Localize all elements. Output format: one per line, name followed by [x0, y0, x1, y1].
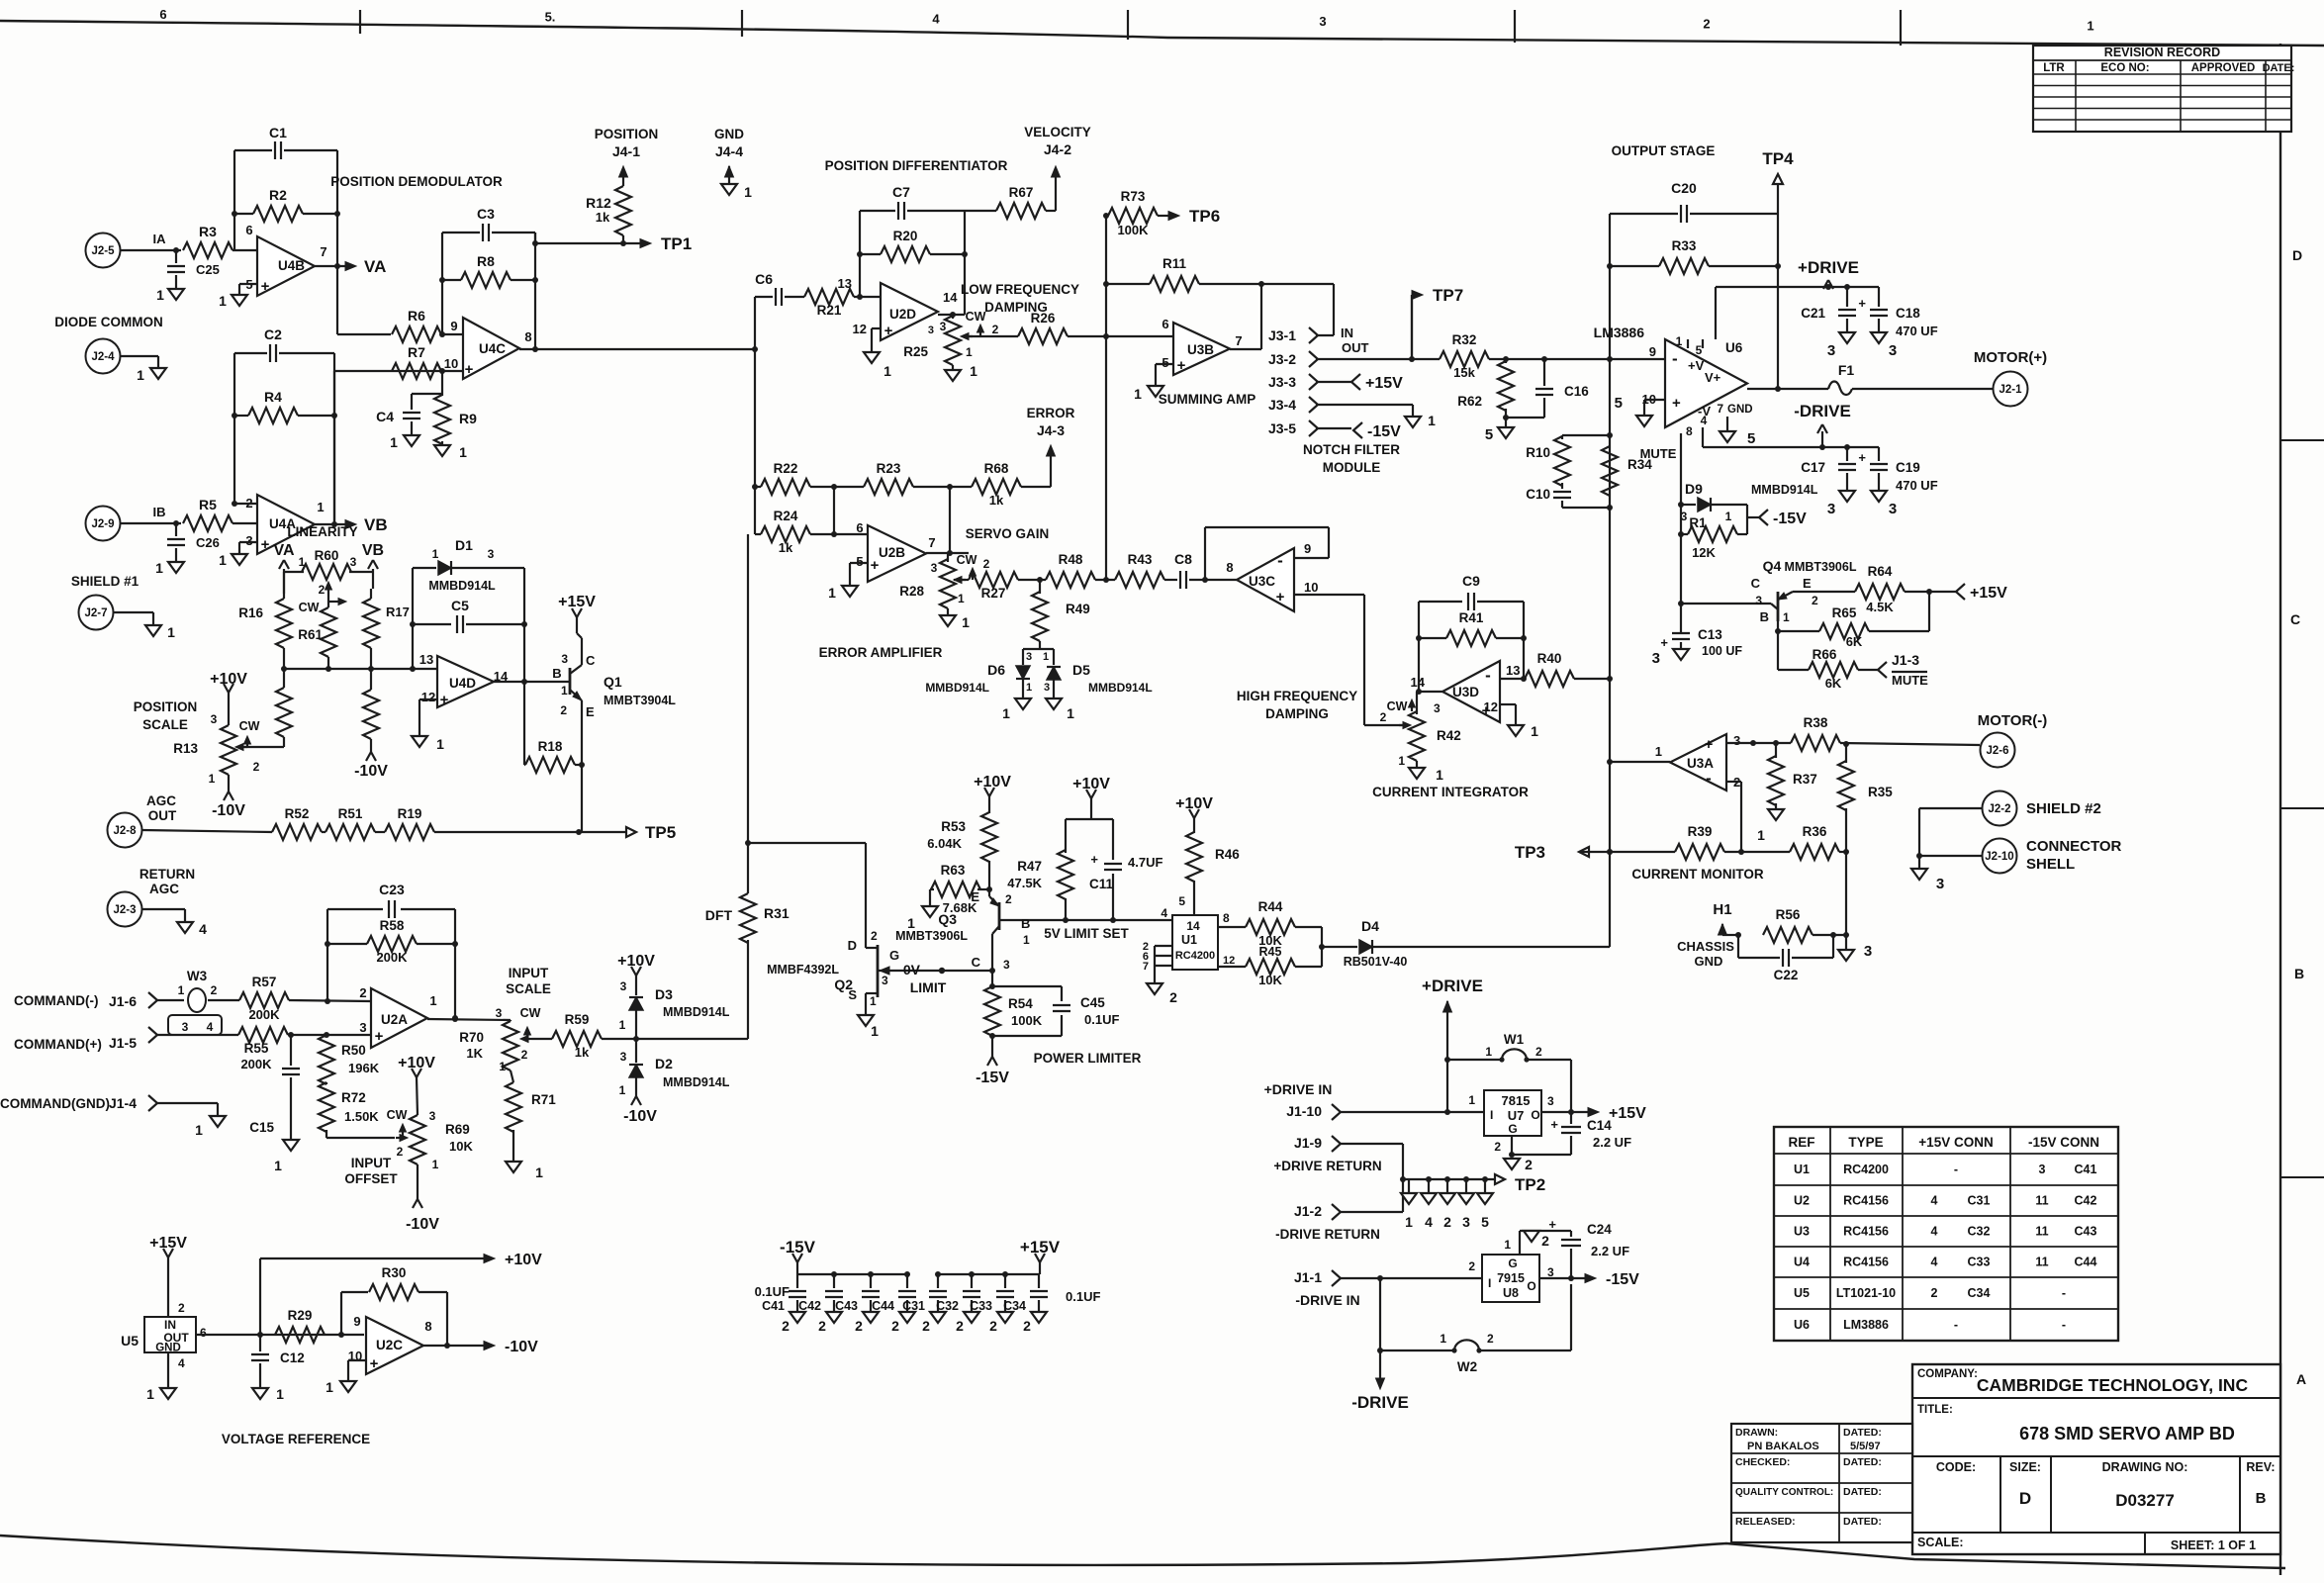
svg-text:U3C: U3C — [1249, 574, 1275, 589]
svg-text:R37: R37 — [1793, 772, 1817, 787]
svg-text:R25: R25 — [903, 344, 928, 359]
svg-text:7: 7 — [320, 244, 326, 259]
svg-text:B: B — [1021, 916, 1030, 931]
svg-text:1: 1 — [209, 772, 216, 786]
svg-text:+10V: +10V — [617, 953, 655, 970]
svg-text:CW: CW — [387, 1108, 408, 1122]
svg-text:6K: 6K — [1846, 634, 1863, 649]
svg-text:-DRIVE RETURN: -DRIVE RETURN — [1275, 1227, 1380, 1242]
svg-text:C45: C45 — [1080, 995, 1105, 1010]
svg-text:5/5/97: 5/5/97 — [1850, 1441, 1881, 1452]
svg-text:C43: C43 — [835, 1299, 858, 1313]
svg-text:+: + — [1276, 589, 1285, 605]
svg-text:U3: U3 — [1794, 1225, 1810, 1239]
svg-text:LOW FREQUENCY: LOW FREQUENCY — [961, 282, 1079, 297]
svg-text:R13: R13 — [173, 741, 198, 756]
svg-text:J2-6: J2-6 — [1986, 745, 2008, 757]
svg-text:R62: R62 — [1457, 394, 1482, 409]
svg-text:1: 1 — [1023, 933, 1030, 947]
svg-text:INPUT: INPUT — [351, 1156, 392, 1170]
svg-text:11: 11 — [2035, 1256, 2048, 1269]
svg-text:1: 1 — [1504, 1238, 1511, 1252]
svg-text:U3B: U3B — [1187, 342, 1214, 357]
svg-text:C20: C20 — [1671, 180, 1697, 196]
svg-text:REF: REF — [1789, 1135, 1815, 1150]
svg-text:C44: C44 — [2075, 1256, 2097, 1269]
svg-text:3: 3 — [928, 325, 934, 336]
svg-text:R54: R54 — [1008, 996, 1033, 1011]
svg-text:+: + — [1548, 1217, 1556, 1232]
svg-text:13: 13 — [419, 652, 433, 667]
svg-text:2: 2 — [1443, 1214, 1451, 1230]
svg-text:R49: R49 — [1066, 602, 1090, 616]
svg-text:2: 2 — [359, 985, 366, 1000]
svg-text:C2: C2 — [264, 326, 282, 342]
svg-text:ECO NO:: ECO NO: — [2100, 62, 2149, 74]
svg-text:R32: R32 — [1452, 332, 1477, 347]
svg-text:SIZE:: SIZE: — [2009, 1460, 2041, 1474]
svg-text:DFT: DFT — [705, 907, 733, 923]
svg-text:U4B: U4B — [278, 258, 305, 273]
svg-text:REVISION RECORD: REVISION RECORD — [2104, 46, 2220, 59]
svg-text:POSITION: POSITION — [595, 127, 659, 141]
svg-text:IB: IB — [153, 505, 166, 519]
svg-text:RB501V-40: RB501V-40 — [1344, 955, 1408, 969]
svg-text:SHEET: 1 OF 1: SHEET: 1 OF 1 — [2171, 1538, 2256, 1552]
svg-text:1: 1 — [429, 993, 436, 1008]
svg-text:100K: 100K — [1117, 223, 1149, 237]
svg-text:J1-3: J1-3 — [1892, 652, 1919, 668]
svg-text:C21: C21 — [1801, 306, 1825, 321]
svg-text:J4-3: J4-3 — [1037, 422, 1065, 438]
svg-text:1: 1 — [1134, 386, 1142, 402]
svg-text:LT1021-10: LT1021-10 — [1836, 1286, 1896, 1300]
svg-text:12: 12 — [421, 690, 435, 704]
svg-text:MMBD914L: MMBD914L — [663, 1075, 730, 1089]
svg-text:R51: R51 — [338, 806, 363, 821]
svg-text:COMMAND(GND): COMMAND(GND) — [0, 1096, 110, 1111]
svg-text:1: 1 — [1725, 510, 1732, 523]
svg-text:C14: C14 — [1587, 1118, 1612, 1133]
svg-text:0.1UF: 0.1UF — [1066, 1289, 1100, 1304]
svg-text:+: + — [370, 1355, 379, 1372]
svg-text:R21: R21 — [817, 303, 842, 318]
svg-text:COMMAND(+): COMMAND(+) — [14, 1037, 102, 1052]
svg-text:R23: R23 — [877, 461, 901, 476]
svg-text:R10: R10 — [1526, 445, 1550, 460]
svg-text:C32: C32 — [1968, 1225, 1991, 1239]
svg-text:4: 4 — [1931, 1194, 1938, 1208]
svg-text:R57: R57 — [252, 975, 277, 989]
svg-text:O: O — [1531, 1108, 1539, 1122]
svg-text:POSITION DEMODULATOR: POSITION DEMODULATOR — [330, 174, 503, 189]
svg-text:R2: R2 — [269, 187, 287, 203]
svg-text:100K: 100K — [1011, 1013, 1043, 1028]
svg-text:R63: R63 — [941, 863, 966, 878]
svg-text:R66: R66 — [1813, 647, 1837, 662]
svg-text:MMBD914L: MMBD914L — [1751, 483, 1818, 497]
svg-text:G: G — [1508, 1122, 1517, 1136]
svg-text:B: B — [2294, 966, 2304, 981]
svg-text:C33: C33 — [1968, 1256, 1991, 1269]
svg-text:3: 3 — [1827, 501, 1835, 517]
svg-text:CHECKED:: CHECKED: — [1735, 1456, 1790, 1468]
svg-text:+DRIVE RETURN: +DRIVE RETURN — [1273, 1159, 1381, 1173]
svg-text:DATED:: DATED: — [1843, 1427, 1882, 1439]
svg-text:E: E — [1803, 576, 1812, 591]
svg-text:7: 7 — [1235, 333, 1242, 348]
svg-text:CW: CW — [299, 601, 320, 614]
svg-text:R33: R33 — [1672, 238, 1697, 253]
svg-text:C9: C9 — [1462, 573, 1480, 589]
svg-text:C12: C12 — [280, 1350, 305, 1365]
svg-text:VOLTAGE REFERENCE: VOLTAGE REFERENCE — [222, 1432, 370, 1446]
svg-text:1: 1 — [1067, 705, 1074, 721]
svg-text:10: 10 — [1304, 580, 1318, 595]
svg-text:D: D — [2019, 1489, 2031, 1508]
svg-text:11: 11 — [2035, 1225, 2048, 1239]
svg-text:C31: C31 — [1968, 1194, 1991, 1208]
svg-text:TITLE:: TITLE: — [1917, 1404, 1953, 1416]
svg-text:+: + — [465, 361, 474, 378]
svg-text:J2-9: J2-9 — [91, 518, 114, 530]
svg-text:1: 1 — [1531, 723, 1538, 739]
svg-text:R11: R11 — [1162, 256, 1187, 271]
svg-text:C: C — [2290, 611, 2300, 627]
svg-text:1: 1 — [146, 1386, 154, 1402]
svg-text:+: + — [261, 278, 270, 295]
svg-text:CW: CW — [966, 310, 986, 324]
svg-text:VELOCITY: VELOCITY — [1024, 125, 1091, 140]
svg-text:C: C — [972, 955, 981, 970]
svg-text:RC4156: RC4156 — [1843, 1225, 1889, 1239]
svg-text:U2: U2 — [1794, 1194, 1810, 1208]
svg-text:3: 3 — [1936, 876, 1944, 892]
svg-text:10K: 10K — [449, 1139, 473, 1154]
svg-text:2: 2 — [1931, 1286, 1938, 1300]
svg-text:C4: C4 — [376, 409, 394, 424]
svg-text:U2D: U2D — [889, 307, 916, 322]
svg-text:MMBD914L: MMBD914L — [663, 1005, 730, 1019]
svg-text:+: + — [1660, 635, 1668, 650]
svg-text:D4: D4 — [1361, 918, 1379, 934]
svg-text:1: 1 — [276, 1386, 284, 1402]
svg-text:J1-4: J1-4 — [109, 1095, 137, 1111]
svg-text:J2-8: J2-8 — [113, 825, 137, 837]
svg-text:3: 3 — [1652, 650, 1660, 667]
svg-text:4.5K: 4.5K — [1866, 600, 1894, 614]
svg-text:D5: D5 — [1072, 662, 1090, 678]
svg-text:R45: R45 — [1259, 945, 1282, 959]
svg-text:678 SMD SERVO AMP BD: 678 SMD SERVO AMP BD — [2019, 1424, 2235, 1443]
svg-text:4: 4 — [1931, 1256, 1938, 1269]
svg-text:U1: U1 — [1794, 1163, 1810, 1176]
svg-text:TP3: TP3 — [1515, 843, 1545, 862]
svg-text:12: 12 — [853, 322, 867, 336]
svg-text:J2-2: J2-2 — [1988, 803, 2010, 815]
svg-text:R28: R28 — [899, 584, 924, 599]
svg-text:1: 1 — [178, 983, 185, 997]
svg-text:C16: C16 — [1564, 384, 1589, 399]
svg-text:HIGH FREQUENCY: HIGH FREQUENCY — [1237, 689, 1357, 703]
svg-text:10K: 10K — [1258, 973, 1282, 987]
svg-text:VB: VB — [362, 542, 384, 559]
svg-text:D: D — [848, 938, 857, 953]
svg-text:2: 2 — [855, 1318, 863, 1334]
svg-text:3: 3 — [350, 555, 357, 569]
svg-text:5: 5 — [1615, 395, 1623, 412]
svg-text:R72: R72 — [341, 1090, 366, 1105]
svg-text:+15V: +15V — [1970, 585, 2007, 602]
svg-text:J2-4: J2-4 — [91, 351, 115, 363]
svg-text:R7: R7 — [408, 344, 425, 360]
svg-text:B: B — [1760, 609, 1769, 624]
svg-text:C7: C7 — [892, 184, 910, 200]
svg-text:DIODE COMMON: DIODE COMMON — [54, 315, 163, 329]
svg-text:D6: D6 — [987, 662, 1005, 678]
svg-text:CURRENT INTEGRATOR: CURRENT INTEGRATOR — [1372, 785, 1529, 799]
svg-text:DATE:: DATE: — [2263, 62, 2295, 74]
svg-text:R9: R9 — [459, 411, 477, 426]
svg-text:9: 9 — [1304, 541, 1311, 556]
svg-text:8: 8 — [1223, 911, 1230, 925]
svg-text:1k: 1k — [596, 210, 610, 225]
svg-text:-10V: -10V — [354, 763, 388, 780]
svg-text:J2-7: J2-7 — [84, 607, 107, 619]
svg-text:4: 4 — [1701, 414, 1708, 427]
svg-text:-: - — [2062, 1286, 2066, 1300]
svg-text:QUALITY CONTROL:: QUALITY CONTROL: — [1735, 1487, 1833, 1498]
svg-text:-: - — [2062, 1318, 2066, 1332]
svg-text:J4-4: J4-4 — [715, 143, 743, 159]
svg-text:+15V: +15V — [1609, 1105, 1646, 1122]
svg-text:D1: D1 — [455, 537, 473, 553]
svg-text:1: 1 — [155, 560, 163, 576]
svg-text:1: 1 — [2087, 19, 2093, 34]
svg-text:4: 4 — [199, 921, 207, 937]
svg-text:-15V: -15V — [1773, 511, 1807, 527]
svg-text:R38: R38 — [1804, 715, 1828, 730]
svg-text:R18: R18 — [538, 739, 563, 754]
svg-text:J1-6: J1-6 — [109, 993, 137, 1009]
svg-text:F1: F1 — [1838, 362, 1855, 378]
svg-text:4.7UF: 4.7UF — [1128, 855, 1162, 870]
svg-text:TP7: TP7 — [1433, 286, 1463, 305]
svg-text:+15V CONN: +15V CONN — [1918, 1135, 1993, 1150]
svg-text:D: D — [2292, 247, 2302, 263]
svg-text:C41: C41 — [762, 1299, 785, 1313]
svg-text:R4: R4 — [264, 389, 282, 405]
svg-text:+10V: +10V — [505, 1252, 542, 1268]
svg-text:R56: R56 — [1776, 907, 1801, 922]
svg-text:6: 6 — [200, 1326, 207, 1340]
svg-text:R47: R47 — [1017, 859, 1042, 874]
svg-text:CW: CW — [957, 553, 977, 567]
svg-text:6: 6 — [245, 223, 252, 237]
svg-text:-10V: -10V — [212, 802, 245, 819]
svg-text:+DRIVE: +DRIVE — [1422, 977, 1483, 995]
svg-text:SCALE: SCALE — [142, 717, 188, 732]
svg-text:3: 3 — [1547, 1094, 1554, 1108]
svg-text:+: + — [1858, 296, 1866, 311]
svg-text:R61: R61 — [298, 627, 323, 642]
svg-text:13: 13 — [1506, 663, 1520, 678]
svg-text:CW: CW — [1387, 699, 1408, 713]
svg-text:1: 1 — [219, 293, 227, 309]
svg-text:3: 3 — [1755, 594, 1762, 607]
svg-text:CONNECTOR: CONNECTOR — [2026, 838, 2122, 855]
svg-text:2: 2 — [1525, 1157, 1533, 1172]
svg-text:1: 1 — [436, 736, 444, 752]
svg-text:R60: R60 — [315, 548, 339, 563]
svg-text:1: 1 — [137, 367, 144, 383]
svg-text:1: 1 — [1026, 682, 1032, 694]
svg-text:+V: +V — [1688, 358, 1705, 373]
svg-text:D2: D2 — [655, 1056, 673, 1071]
svg-text:SHELL: SHELL — [2026, 856, 2075, 873]
svg-text:9: 9 — [353, 1314, 360, 1329]
svg-text:MODULE: MODULE — [1323, 460, 1381, 475]
svg-text:IA: IA — [153, 232, 167, 246]
svg-text:+: + — [1177, 357, 1186, 374]
svg-text:0V: 0V — [903, 962, 921, 978]
svg-text:C19: C19 — [1896, 460, 1920, 475]
svg-text:V+: V+ — [1705, 370, 1721, 385]
svg-text:R68: R68 — [984, 461, 1009, 476]
svg-text:C42: C42 — [798, 1299, 821, 1313]
svg-text:J3-4: J3-4 — [1268, 397, 1296, 413]
svg-text:U7: U7 — [1508, 1108, 1525, 1123]
svg-text:+: + — [1090, 852, 1098, 867]
svg-text:-: - — [1485, 666, 1491, 685]
svg-text:1: 1 — [1757, 827, 1765, 843]
svg-text:1: 1 — [1468, 1093, 1475, 1107]
svg-text:RETURN: RETURN — [139, 867, 195, 882]
svg-text:9: 9 — [450, 319, 457, 333]
svg-text:4: 4 — [1425, 1214, 1433, 1230]
svg-text:MMBD914L: MMBD914L — [925, 681, 989, 695]
svg-text:1: 1 — [870, 994, 877, 1008]
svg-text:5: 5 — [1178, 894, 1185, 908]
svg-text:POWER LIMITER: POWER LIMITER — [1034, 1051, 1142, 1066]
svg-text:MMBT3906L: MMBT3906L — [895, 929, 968, 943]
svg-text:+: + — [1705, 736, 1714, 753]
svg-text:LM3886: LM3886 — [1594, 325, 1645, 340]
svg-text:DRAWING NO:: DRAWING NO: — [2102, 1460, 2188, 1474]
svg-text:2: 2 — [818, 1318, 826, 1334]
svg-text:-15V: -15V — [1367, 423, 1401, 440]
svg-text:C15: C15 — [249, 1120, 274, 1135]
svg-text:J2-1: J2-1 — [1999, 384, 2022, 396]
svg-text:3: 3 — [182, 1020, 189, 1034]
svg-text:R3: R3 — [199, 224, 217, 239]
svg-text:SERVO GAIN: SERVO GAIN — [966, 526, 1050, 541]
svg-text:3: 3 — [1733, 733, 1740, 748]
svg-text:VA: VA — [364, 257, 386, 276]
svg-text:5: 5 — [1747, 430, 1755, 447]
svg-text:DATED:: DATED: — [1843, 1486, 1882, 1498]
svg-text:RC4200: RC4200 — [1175, 950, 1215, 962]
svg-text:3: 3 — [488, 547, 495, 561]
svg-text:-DRIVE IN: -DRIVE IN — [1295, 1292, 1359, 1308]
svg-text:1: 1 — [1405, 1214, 1413, 1230]
svg-text:C31: C31 — [902, 1299, 925, 1313]
svg-text:5: 5 — [1481, 1214, 1489, 1230]
svg-text:ERROR AMPLIFIER: ERROR AMPLIFIER — [819, 645, 943, 660]
svg-text:0.1UF: 0.1UF — [755, 1284, 790, 1299]
svg-text:3: 3 — [931, 561, 938, 575]
svg-text:1: 1 — [1002, 705, 1010, 721]
svg-text:C5: C5 — [451, 598, 469, 613]
svg-text:CW: CW — [239, 719, 260, 733]
svg-text:+: + — [261, 536, 270, 553]
svg-text:C26: C26 — [196, 535, 220, 550]
svg-text:-10V: -10V — [406, 1216, 439, 1233]
svg-text:U2B: U2B — [879, 545, 905, 560]
svg-text:C8: C8 — [1174, 551, 1192, 567]
svg-text:1: 1 — [883, 363, 891, 379]
svg-text:DATED:: DATED: — [1843, 1456, 1882, 1468]
svg-text:U3D: U3D — [1452, 685, 1479, 699]
svg-text:+15V: +15V — [1020, 1238, 1061, 1257]
svg-text:W1: W1 — [1504, 1032, 1525, 1047]
svg-text:47.5K: 47.5K — [1007, 876, 1042, 890]
svg-text:R12: R12 — [586, 195, 611, 211]
svg-text:2: 2 — [1169, 989, 1177, 1005]
svg-text:TP2: TP2 — [1515, 1175, 1545, 1194]
svg-text:DATED:: DATED: — [1843, 1516, 1882, 1528]
svg-text:1: 1 — [871, 1023, 879, 1039]
svg-text:U8: U8 — [1503, 1286, 1519, 1300]
svg-text:R36: R36 — [1803, 824, 1827, 839]
svg-text:TP5: TP5 — [645, 823, 676, 842]
svg-text:R69: R69 — [445, 1122, 470, 1137]
svg-text:MMBD914L: MMBD914L — [428, 579, 496, 593]
svg-text:-: - — [1954, 1163, 1958, 1176]
svg-text:MUTE: MUTE — [1892, 673, 1928, 688]
svg-text:MMBF4392L: MMBF4392L — [767, 963, 839, 977]
svg-text:1: 1 — [299, 555, 306, 569]
svg-text:C42: C42 — [2075, 1194, 2097, 1208]
svg-text:2: 2 — [992, 323, 999, 336]
svg-text:3: 3 — [1827, 342, 1835, 359]
svg-text:SCALE: SCALE — [506, 981, 551, 996]
svg-text:R46: R46 — [1215, 847, 1240, 862]
svg-text:PN BAKALOS: PN BAKALOS — [1747, 1441, 1819, 1452]
svg-text:1: 1 — [432, 1158, 439, 1171]
svg-text:6K: 6K — [1825, 676, 1842, 691]
svg-text:GND: GND — [1695, 954, 1723, 969]
svg-text:H1: H1 — [1713, 901, 1731, 918]
svg-text:W3: W3 — [187, 969, 208, 983]
svg-text:1: 1 — [966, 345, 973, 359]
svg-text:C24: C24 — [1587, 1222, 1612, 1237]
svg-text:R43: R43 — [1128, 552, 1153, 567]
svg-text:R24: R24 — [774, 509, 798, 523]
svg-text:1k: 1k — [779, 540, 793, 555]
svg-text:1k: 1k — [989, 493, 1004, 508]
svg-text:2: 2 — [397, 1145, 404, 1159]
svg-text:R71: R71 — [531, 1092, 556, 1107]
svg-text:13: 13 — [838, 276, 852, 291]
svg-text:R17: R17 — [386, 605, 410, 619]
svg-text:3: 3 — [1889, 342, 1897, 359]
svg-text:4: 4 — [207, 1020, 214, 1034]
svg-text:U4D: U4D — [449, 676, 476, 691]
svg-text:2: 2 — [1023, 1318, 1031, 1334]
svg-text:2: 2 — [983, 557, 990, 571]
svg-text:SHIELD #2: SHIELD #2 — [2026, 800, 2101, 817]
